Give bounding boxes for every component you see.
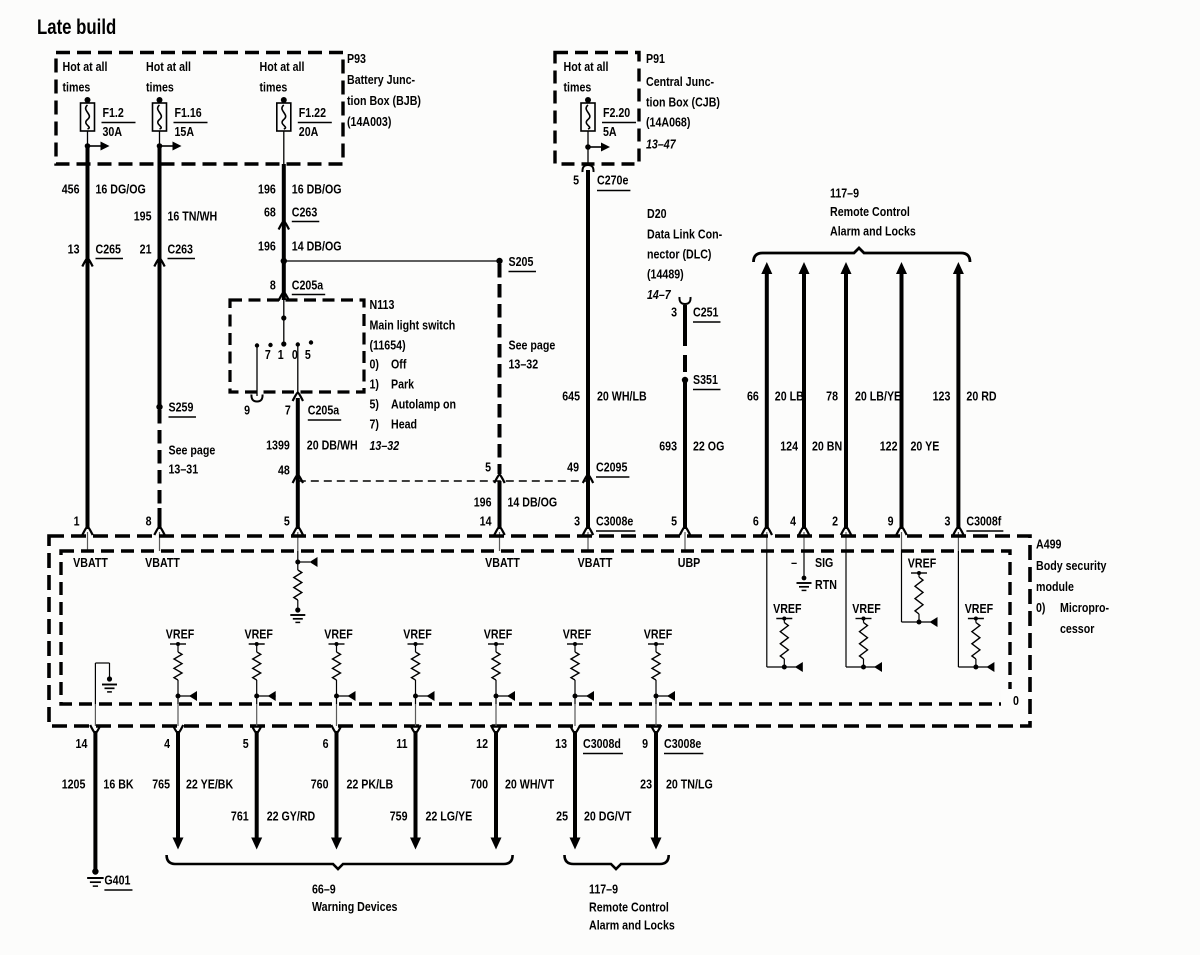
svg-text:Micropro-: Micropro- xyxy=(1060,600,1109,615)
pin 3 top entry xyxy=(953,527,963,536)
pin 11 bottom exit xyxy=(415,704,417,726)
bracket 117-9 Remote Control Alarm and Locks xyxy=(754,248,971,262)
svg-text:D20: D20 xyxy=(647,206,667,221)
svg-text:F2.20: F2.20 xyxy=(603,105,631,120)
svg-text:Head: Head xyxy=(391,416,417,431)
wire 693 22 OG to BSM pin 5 xyxy=(683,380,687,529)
svg-text:P91: P91 xyxy=(646,51,665,66)
wire warning devices xyxy=(255,731,259,838)
wire warning devices xyxy=(335,731,339,838)
svg-text:VBATT: VBATT xyxy=(485,555,520,570)
svg-text:761: 761 xyxy=(231,808,249,823)
pin 6 top entry xyxy=(762,527,772,536)
VREF input pin 6 xyxy=(766,551,768,667)
pin 4 top entry xyxy=(799,527,809,536)
svg-text:Off: Off xyxy=(391,356,406,371)
svg-text:22 PK/LB: 22 PK/LB xyxy=(347,776,394,791)
dashed wire S205 down xyxy=(498,264,502,474)
svg-text:16 DB/OG: 16 DB/OG xyxy=(292,181,342,196)
svg-text:VREF: VREF xyxy=(773,601,801,616)
svg-text:4: 4 xyxy=(164,736,170,751)
svg-text:Park: Park xyxy=(391,376,414,391)
svg-text:1205: 1205 xyxy=(62,776,86,791)
svg-text:VREF: VREF xyxy=(244,626,272,641)
svg-text:66–9: 66–9 xyxy=(312,881,336,896)
svg-text:Remote Control: Remote Control xyxy=(830,204,910,219)
svg-text:196: 196 xyxy=(474,494,492,509)
svg-text:times: times xyxy=(63,79,91,94)
wire junction to splice S205 xyxy=(284,260,500,262)
pin 9 top entry xyxy=(896,527,906,536)
svg-text:VBATT: VBATT xyxy=(145,555,180,570)
svg-text:20 BN: 20 BN xyxy=(812,438,842,453)
svg-text:Warning Devices: Warning Devices xyxy=(312,899,398,914)
pin 4 SIG RTN ground xyxy=(803,551,805,577)
svg-text:UBP: UBP xyxy=(678,555,701,570)
fuse F1.22 20A xyxy=(281,97,287,103)
wire remote control alarm and locks xyxy=(896,262,907,274)
svg-text:VREF: VREF xyxy=(484,626,512,641)
pin 5 bottom exit xyxy=(256,704,258,726)
svg-text:3: 3 xyxy=(574,513,580,528)
svg-text:78: 78 xyxy=(826,388,838,403)
wire 645 20 WH/LB from F2.20 to BSM pin 3 xyxy=(586,170,590,529)
wire warning devices xyxy=(494,731,498,838)
wire warning devices xyxy=(176,731,180,838)
svg-text:20 DB/WH: 20 DB/WH xyxy=(307,437,358,452)
svg-text:22 GY/RD: 22 GY/RD xyxy=(267,808,316,823)
svg-text:765: 765 xyxy=(152,776,170,791)
svg-text:16 DG/OG: 16 DG/OG xyxy=(96,181,146,196)
svg-text:124: 124 xyxy=(780,438,798,453)
switch pin 9 stub xyxy=(256,347,258,396)
svg-text:2: 2 xyxy=(832,513,838,528)
pin 13 bottom exit xyxy=(574,704,576,726)
svg-text:20 RD: 20 RD xyxy=(966,388,997,403)
svg-text:6: 6 xyxy=(323,736,329,751)
wire remote control alarm and locks xyxy=(953,262,964,274)
pin 3 top entry xyxy=(583,527,593,536)
pin 14 internal ground xyxy=(94,663,96,704)
connector C263 on wire 2 xyxy=(154,258,164,267)
pin 2 top entry xyxy=(841,527,851,536)
pin 5 top entry xyxy=(680,527,690,536)
splice S351 xyxy=(682,377,688,383)
svg-text:117–9: 117–9 xyxy=(830,185,859,200)
feed arrow under fuse F1.2 xyxy=(87,131,89,146)
svg-text:13: 13 xyxy=(68,241,80,256)
svg-text:5: 5 xyxy=(243,736,249,751)
fuse F2.20 5A xyxy=(585,97,591,103)
svg-text:C263: C263 xyxy=(292,204,318,219)
wire 195 16 TN/WH from F1.16 to S259 xyxy=(158,146,162,407)
svg-text:F1.22: F1.22 xyxy=(299,105,327,120)
svg-text:20 WH/VT: 20 WH/VT xyxy=(505,776,555,791)
splice S205 xyxy=(496,258,502,264)
svg-text:C205a: C205a xyxy=(308,402,340,417)
svg-text:Alarm and Locks: Alarm and Locks xyxy=(589,917,675,932)
pin 8 top entry xyxy=(154,527,164,536)
svg-text:16 TN/WH: 16 TN/WH xyxy=(168,208,218,223)
pin 12 bottom exit xyxy=(495,704,497,726)
svg-text:20A: 20A xyxy=(299,124,319,139)
wire 456 16 DG/OG from F1.2 to BSM pin 1 xyxy=(86,146,90,529)
svg-text:122: 122 xyxy=(880,438,898,453)
microprocessor input pin 5 with pull-down resistor xyxy=(297,551,299,562)
svg-text:16 BK: 16 BK xyxy=(103,776,134,791)
svg-text:7: 7 xyxy=(285,402,291,417)
svg-text:1: 1 xyxy=(74,513,80,528)
svg-text:Battery Junc-: Battery Junc- xyxy=(347,72,415,87)
svg-text:C3008f: C3008f xyxy=(966,513,1001,528)
svg-text:8: 8 xyxy=(146,513,152,528)
svg-text:times: times xyxy=(564,79,592,94)
svg-text:13–47: 13–47 xyxy=(646,136,677,151)
svg-text:5: 5 xyxy=(573,172,579,187)
svg-text:S351: S351 xyxy=(693,372,718,387)
svg-text:13: 13 xyxy=(555,736,567,751)
VREF input pin 3 xyxy=(957,551,959,667)
svg-text:196: 196 xyxy=(258,238,276,253)
brace 117-9 Remote Control bottom xyxy=(565,855,669,869)
svg-text:759: 759 xyxy=(390,808,408,823)
connector C251 xyxy=(679,297,690,304)
svg-text:Data Link Con-: Data Link Con- xyxy=(647,226,722,241)
svg-text:S259: S259 xyxy=(169,399,194,414)
svg-text:693: 693 xyxy=(659,438,677,453)
pin 14 top entry xyxy=(494,527,504,536)
pin 6 bottom exit xyxy=(336,704,338,726)
svg-text:Hot at all: Hot at all xyxy=(260,59,305,74)
svg-text:8: 8 xyxy=(270,277,276,292)
svg-text:456: 456 xyxy=(62,181,80,196)
svg-text:645: 645 xyxy=(562,388,580,403)
svg-text:S205: S205 xyxy=(509,254,534,269)
pin 1 top entry xyxy=(82,527,92,536)
svg-text:196: 196 xyxy=(258,181,276,196)
svg-text:times: times xyxy=(260,79,288,94)
svg-text:See page: See page xyxy=(509,337,556,352)
svg-text:Remote Control: Remote Control xyxy=(589,899,669,914)
svg-text:7): 7) xyxy=(370,416,380,431)
main light switch N113 box xyxy=(230,300,364,392)
svg-text:11: 11 xyxy=(396,736,408,751)
wire remote control bottom xyxy=(573,731,577,838)
svg-text:VBATT: VBATT xyxy=(73,555,108,570)
svg-text:12: 12 xyxy=(476,736,488,751)
svg-text:5A: 5A xyxy=(603,124,617,139)
svg-text:VREF: VREF xyxy=(324,626,352,641)
svg-text:RTN: RTN xyxy=(815,577,837,592)
wire remote control alarm and locks xyxy=(799,262,810,274)
switch pin 7 wire xyxy=(297,346,299,393)
svg-text:20 LB/YE: 20 LB/YE xyxy=(855,388,901,403)
VREF input pin 2 xyxy=(845,551,847,667)
svg-text:cessor: cessor xyxy=(1060,621,1095,636)
svg-text:9: 9 xyxy=(244,402,250,417)
central junction box P91 xyxy=(555,53,639,165)
svg-text:4: 4 xyxy=(790,513,796,528)
svg-text:20 WH/LB: 20 WH/LB xyxy=(597,388,647,403)
svg-text:22 OG: 22 OG xyxy=(693,438,724,453)
connector C263 on wire 3 xyxy=(279,221,289,230)
switch contacts 7 1 0 5 xyxy=(255,343,259,347)
svg-text:Hot at all: Hot at all xyxy=(63,59,108,74)
wire remote control alarm and locks xyxy=(841,262,852,274)
brace 66-9 Warning Devices xyxy=(167,855,513,869)
svg-text:13–31: 13–31 xyxy=(169,461,199,476)
svg-text:tion Box (CJB): tion Box (CJB) xyxy=(646,94,720,109)
svg-text:20 DG/VT: 20 DG/VT xyxy=(584,808,632,823)
svg-text:14: 14 xyxy=(480,513,492,528)
svg-text:Body security: Body security xyxy=(1036,558,1107,573)
svg-text:1: 1 xyxy=(278,347,284,362)
svg-text:times: times xyxy=(146,79,174,94)
node junction to S205 xyxy=(281,258,287,264)
pin 9 bottom exit xyxy=(655,704,657,726)
svg-text:7: 7 xyxy=(265,347,271,362)
svg-text:C3008d: C3008d xyxy=(583,736,621,751)
fuse F1.2 30A xyxy=(85,97,91,103)
svg-text:C251: C251 xyxy=(693,304,719,319)
svg-text:C265: C265 xyxy=(96,241,122,256)
svg-text:C205a: C205a xyxy=(292,277,324,292)
svg-text:9: 9 xyxy=(642,736,648,751)
wire 196 16 DB/OG from F1.22 to main light switch xyxy=(282,164,286,300)
svg-text:1): 1) xyxy=(370,376,380,391)
svg-text:5): 5) xyxy=(370,396,380,411)
svg-text:3: 3 xyxy=(671,304,677,319)
svg-text:14 DB/OG: 14 DB/OG xyxy=(292,238,342,253)
svg-text:21: 21 xyxy=(140,241,152,256)
svg-text:14 DB/OG: 14 DB/OG xyxy=(508,494,558,509)
svg-text:195: 195 xyxy=(134,208,152,223)
feed arrow under fuse F2.20 xyxy=(587,131,589,147)
svg-text:Autolamp on: Autolamp on xyxy=(391,396,456,411)
body security module inner box xyxy=(61,551,1010,704)
svg-text:760: 760 xyxy=(311,776,329,791)
wire warning devices xyxy=(414,731,418,838)
svg-text:(14489): (14489) xyxy=(647,266,684,281)
svg-text:6: 6 xyxy=(753,513,759,528)
wire remote control alarm and locks xyxy=(761,262,772,274)
svg-text:30A: 30A xyxy=(103,124,123,139)
svg-text:N113: N113 xyxy=(370,297,395,312)
connector C265 xyxy=(82,258,92,267)
svg-text:15A: 15A xyxy=(175,124,195,139)
dashed page link wire 48 - 5 - 49 C2095 xyxy=(298,480,588,482)
svg-text:VREF: VREF xyxy=(563,626,591,641)
svg-text:Late build: Late build xyxy=(37,16,116,39)
svg-text:14: 14 xyxy=(76,736,88,751)
wire 1399 20 DB/WH to BSM pin 5 xyxy=(296,398,300,529)
svg-text:A499: A499 xyxy=(1036,536,1062,551)
svg-text:VREF: VREF xyxy=(644,626,672,641)
svg-text:13–32: 13–32 xyxy=(509,356,539,371)
svg-text:VREF: VREF xyxy=(908,555,936,570)
svg-text:VREF: VREF xyxy=(852,601,880,616)
wire 196 14 DB/OG to BSM pin 14 xyxy=(498,481,502,529)
svg-text:C270e: C270e xyxy=(597,172,629,187)
svg-text:25: 25 xyxy=(556,808,568,823)
connector C205a on wire 3 xyxy=(279,292,289,301)
svg-text:–: – xyxy=(791,555,797,570)
svg-text:1399: 1399 xyxy=(266,437,290,452)
svg-text:Hot at all: Hot at all xyxy=(146,59,191,74)
body security module A499 outer box xyxy=(49,536,1030,726)
dashed wire below S259 to BSM pin 8 xyxy=(158,410,162,508)
connector at page link junction 48 xyxy=(293,475,303,484)
svg-text:0): 0) xyxy=(1036,600,1046,615)
pin 4 bottom exit xyxy=(177,704,179,726)
svg-text:F1.2: F1.2 xyxy=(103,105,125,120)
svg-text:C3008e: C3008e xyxy=(596,513,634,528)
svg-text:VREF: VREF xyxy=(403,626,431,641)
svg-text:(11654): (11654) xyxy=(370,337,406,352)
svg-text:0: 0 xyxy=(1013,693,1019,708)
svg-text:Hot at all: Hot at all xyxy=(564,59,609,74)
svg-text:9: 9 xyxy=(888,513,894,528)
ground G401 xyxy=(92,868,98,874)
switch wiper inside N113 xyxy=(283,300,285,318)
svg-text:23: 23 xyxy=(640,776,652,791)
VREF input pin 9 xyxy=(901,551,903,622)
wire from C251 xyxy=(683,305,687,329)
svg-text:66: 66 xyxy=(747,388,759,403)
svg-text:5: 5 xyxy=(485,459,491,474)
svg-text:See page: See page xyxy=(169,442,216,457)
svg-text:nector (DLC): nector (DLC) xyxy=(647,246,712,261)
svg-text:20 TN/LG: 20 TN/LG xyxy=(666,776,713,791)
connector C270e xyxy=(582,165,593,172)
svg-text:48: 48 xyxy=(278,462,290,477)
label 0 inner box xyxy=(1001,689,1027,709)
pin 14 bottom exit xyxy=(94,704,96,726)
svg-text:5: 5 xyxy=(305,347,311,362)
svg-text:Alarm and Locks: Alarm and Locks xyxy=(830,223,916,238)
svg-text:(14A003): (14A003) xyxy=(347,114,391,129)
svg-text:20 LB: 20 LB xyxy=(775,388,804,403)
svg-text:SIG: SIG xyxy=(815,555,833,570)
svg-text:VREF: VREF xyxy=(166,626,194,641)
svg-text:VBATT: VBATT xyxy=(578,555,613,570)
svg-text:22 LG/YE: 22 LG/YE xyxy=(426,808,473,823)
svg-text:C3008e: C3008e xyxy=(664,736,702,751)
svg-text:P93: P93 xyxy=(347,51,366,66)
svg-text:117–9: 117–9 xyxy=(589,881,618,896)
svg-text:5: 5 xyxy=(284,513,290,528)
battery junction box P93 xyxy=(56,53,343,165)
ground inside module pin 5 xyxy=(290,614,305,616)
svg-text:(14A068): (14A068) xyxy=(646,114,690,129)
svg-text:0): 0) xyxy=(370,356,380,371)
pin 5 top entry xyxy=(293,527,303,536)
wire 1205 16 BK to G401 xyxy=(93,731,97,869)
svg-text:tion Box (BJB): tion Box (BJB) xyxy=(347,93,421,108)
svg-text:G401: G401 xyxy=(104,872,130,887)
feed arrow under fuse F1.16 xyxy=(159,131,161,146)
svg-text:3: 3 xyxy=(944,513,950,528)
wire fuse F1.22 to box edge xyxy=(283,131,285,164)
svg-text:C263: C263 xyxy=(168,241,194,256)
svg-text:49: 49 xyxy=(567,459,579,474)
svg-text:700: 700 xyxy=(470,776,488,791)
svg-text:C2095: C2095 xyxy=(596,459,628,474)
svg-text:F1.16: F1.16 xyxy=(175,105,203,120)
svg-text:20 YE: 20 YE xyxy=(911,438,940,453)
svg-text:68: 68 xyxy=(264,204,276,219)
svg-text:Main light switch: Main light switch xyxy=(370,317,456,332)
connector C2095 xyxy=(583,475,593,484)
svg-text:22 YE/BK: 22 YE/BK xyxy=(186,776,234,791)
fuse F1.16 15A xyxy=(157,97,163,103)
svg-text:module: module xyxy=(1036,579,1074,594)
svg-text:Central Junc-: Central Junc- xyxy=(646,74,714,89)
svg-text:13–32: 13–32 xyxy=(370,438,400,453)
wire remote control bottom xyxy=(654,731,658,838)
splice S259 xyxy=(156,404,162,410)
svg-text:VREF: VREF xyxy=(965,601,993,616)
svg-text:123: 123 xyxy=(933,388,951,403)
svg-text:5: 5 xyxy=(671,513,677,528)
connector at page link junction xyxy=(494,475,504,484)
svg-text:14–7: 14–7 xyxy=(647,287,672,302)
dashed wire section xyxy=(683,329,687,377)
